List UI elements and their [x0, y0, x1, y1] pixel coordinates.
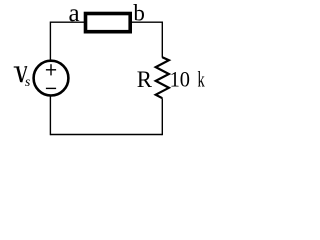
svg-text:b: b: [133, 1, 145, 26]
resistor box between a and b: [86, 14, 131, 32]
svg-text:10: 10: [170, 67, 190, 92]
svg-text:k: k: [198, 67, 206, 92]
wire bottom: [50, 134, 162, 136]
label Vs : letter V drawn as strokes: [14, 67, 28, 83]
wire right lower (resistor R to bottom): [161, 98, 163, 135]
plus sign inside source: [46, 69, 56, 71]
wire right upper (b down to resistor R): [161, 22, 163, 58]
wire left upper (a down to source Vs): [49, 22, 51, 61]
svg-text:a: a: [68, 0, 79, 27]
wire left lower (source Vs to bottom): [49, 96, 51, 135]
svg-text:R: R: [137, 67, 152, 93]
voltage source Vs circle: [34, 61, 69, 96]
wire top (node a to node b): [50, 21, 162, 23]
minus sign inside source: [46, 87, 56, 89]
resistor R zigzag: [156, 57, 169, 98]
svg-text:s: s: [25, 75, 31, 90]
